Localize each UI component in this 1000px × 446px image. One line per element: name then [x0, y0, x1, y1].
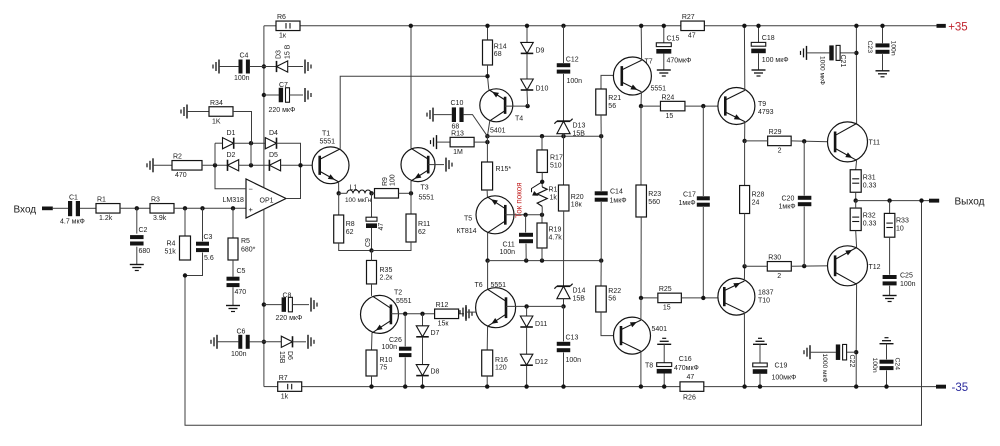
junction rail/D9 — [525, 24, 529, 28]
label C19 100мкФ — [772, 363, 797, 382]
svg-text:5401: 5401 — [490, 128, 506, 135]
junction D6/C6 — [262, 340, 266, 344]
resistor R12 — [435, 302, 459, 328]
junction output/R31 — [854, 198, 858, 202]
ground right of D6 — [308, 335, 314, 349]
junction R25/R23 — [639, 296, 643, 300]
wire R25 right — [681, 297, 723, 299]
svg-text:C20: C20 — [782, 195, 795, 202]
wire D1 to D4 — [234, 142, 266, 144]
capacitor C9 47uF — [365, 217, 385, 247]
svg-text:C22: C22 — [848, 355, 855, 368]
label D5 — [269, 152, 278, 159]
ground left of C10 — [427, 108, 433, 122]
node Вход input terminal — [14, 205, 53, 216]
junction rail/T11 — [854, 24, 858, 28]
wire C20 top seg — [803, 141, 805, 195]
svg-text:100 мкФ: 100 мкФ — [762, 57, 789, 64]
junction T9/R29/R28 — [742, 139, 746, 143]
ground below C15 — [657, 70, 671, 76]
wire D11-D12 — [526, 328, 528, 355]
wire D7 stub — [422, 314, 424, 326]
transistor T9 4793 — [718, 88, 774, 125]
wire T10 collector down — [743, 312, 745, 386]
junction C8 — [262, 302, 266, 306]
junction bus/D13 — [561, 134, 565, 138]
wire R22 to T8 base — [601, 312, 620, 336]
label R35 2.2к — [380, 267, 394, 282]
wire D7-D8 — [422, 337, 424, 364]
ground left of C21 — [801, 46, 807, 60]
capacitor C21 1000мкФ — [829, 45, 840, 60]
junction R4/C3/feedback — [183, 273, 187, 277]
wire +35 rail — [300, 25, 681, 27]
svg-text:Ток покоя: Ток покоя — [515, 182, 524, 218]
wire T6 collector up — [487, 261, 489, 290]
wire R31 to output — [855, 192, 857, 200]
wire T3 collector up — [410, 26, 412, 149]
wire column to D3 — [264, 66, 277, 68]
junction T12/-35 — [854, 384, 858, 388]
wire R8 to joint — [339, 243, 372, 251]
svg-text:T9: T9 — [758, 101, 766, 108]
wire C6 to column — [250, 341, 264, 343]
svg-text:100мкФ: 100мкФ — [772, 375, 797, 382]
svg-text:75: 75 — [380, 365, 388, 372]
label C22 1000мкФ — [821, 354, 855, 383]
junction R16/-35 — [485, 384, 489, 388]
zener D14 15V — [554, 284, 572, 299]
junction T5 base/C11 — [523, 213, 527, 217]
wire D5 to T1 base — [281, 164, 319, 166]
wire R25 left — [641, 297, 658, 299]
svg-text:5.6: 5.6 — [204, 255, 214, 262]
svg-text:1мкФ: 1мкФ — [779, 204, 796, 211]
svg-text:470: 470 — [235, 289, 247, 296]
label R20 18к — [571, 194, 584, 209]
wire T4col-R13-R15 vertical — [486, 136, 488, 162]
svg-text:C7: C7 — [279, 82, 288, 89]
svg-text:T6: T6 — [475, 282, 483, 289]
wire R14 top — [487, 26, 489, 40]
resistor R31 — [850, 170, 861, 193]
svg-text:R12: R12 — [436, 302, 449, 309]
svg-text:C8: C8 — [283, 292, 292, 299]
wire R5 stub top — [232, 208, 234, 238]
transistor T7 5551 — [613, 57, 666, 95]
transistor T12 — [828, 246, 881, 286]
label C7 220мкФ — [269, 82, 296, 114]
svg-text:R21: R21 — [608, 95, 621, 102]
label C8 220мкФ — [276, 292, 303, 322]
transistor T5 KT814 — [457, 196, 515, 235]
wire R19 stub — [541, 215, 543, 223]
svg-text:D6: D6 — [286, 351, 293, 360]
wire R17 to R18 — [541, 173, 543, 187]
wire gnd to R34 — [187, 111, 209, 113]
svg-text:15В: 15В — [573, 296, 586, 303]
wire R4 top stub — [184, 208, 186, 236]
svg-text:R6: R6 — [277, 14, 286, 21]
svg-text:4.7k: 4.7k — [549, 235, 563, 242]
wire -35 rail — [302, 386, 680, 388]
capacitor C20 — [779, 195, 812, 210]
wire T11 collector up — [855, 26, 857, 124]
wire column to C7 — [264, 94, 279, 96]
wire gnd to R2 — [153, 164, 172, 166]
label D1 — [227, 130, 236, 137]
label D8 — [431, 369, 440, 376]
wire C9 stub — [371, 193, 373, 217]
svg-text:D4: D4 — [269, 130, 278, 137]
svg-text:L1: L1 — [350, 185, 358, 192]
wire C26 to rail — [404, 357, 406, 386]
svg-text:680: 680 — [139, 248, 151, 255]
junction D1/D4 mid — [249, 141, 253, 145]
transistor T10 1837 — [718, 278, 774, 315]
resistor R34 — [209, 100, 233, 126]
svg-text:R4: R4 — [167, 241, 176, 248]
junction C4 — [262, 64, 266, 68]
junction R30/C20 — [802, 264, 806, 268]
wire upper diode row — [215, 142, 223, 144]
ground left of C22 — [804, 345, 810, 359]
wire C23 stub — [882, 26, 884, 43]
wire C16 stub — [663, 344, 665, 362]
svg-text:R7: R7 — [279, 375, 288, 382]
svg-text:2: 2 — [778, 148, 782, 155]
label R33 10 — [896, 218, 909, 233]
capacitor C5 — [227, 268, 247, 296]
wire D10 to T4 base — [526, 91, 529, 107]
diode D6 15V — [281, 336, 292, 347]
svg-text:100n: 100n — [566, 357, 582, 364]
junction R9/T3/R11 — [409, 191, 413, 195]
svg-text:C1: C1 — [69, 194, 78, 201]
label D12 — [535, 359, 548, 366]
junction C19/-35 — [758, 384, 762, 388]
svg-text:D14: D14 — [573, 288, 586, 295]
wire R35 stub top — [371, 251, 373, 261]
label D14 15В — [573, 288, 586, 303]
svg-text:R10: R10 — [380, 357, 393, 364]
wire D9-D10 — [526, 54, 528, 79]
svg-text:5551: 5551 — [419, 194, 435, 201]
svg-text:T2: T2 — [394, 290, 402, 297]
svg-text:1K: 1K — [212, 118, 221, 125]
wire column C4-C7 — [263, 67, 265, 188]
capacitor C7 220uF — [279, 88, 290, 103]
resistor R21 — [596, 89, 607, 115]
svg-text:5401: 5401 — [652, 326, 668, 333]
wire R30 left — [745, 265, 768, 267]
resistor R7 — [278, 375, 302, 401]
wire R2 to node A — [202, 164, 228, 166]
wire C7 to ground — [290, 94, 304, 96]
junction T5 base/R18 — [540, 213, 544, 217]
label C18 100мкФ — [762, 35, 789, 64]
inductor L1 100мкГн — [345, 185, 372, 204]
wire R16 to rail — [486, 376, 488, 387]
svg-text:КТ814: КТ814 — [457, 228, 477, 235]
svg-text:R11: R11 — [418, 221, 430, 228]
svg-text:R34: R34 — [210, 100, 223, 107]
svg-text:R28: R28 — [752, 192, 765, 199]
label R9 100 — [382, 174, 397, 186]
label C15 470мкФ — [667, 36, 692, 65]
capacitor C14 — [595, 189, 627, 205]
ground right of C7 — [305, 88, 311, 102]
svg-text:C13: C13 — [566, 334, 579, 341]
svg-text:C6: C6 — [237, 329, 246, 336]
ground right of D3 — [305, 60, 311, 74]
svg-text:C21: C21 — [839, 55, 846, 68]
transistor T11 — [828, 122, 881, 162]
label R26 47 — [683, 374, 696, 402]
svg-text:1k: 1k — [281, 393, 289, 400]
transistor T8 5401 — [614, 317, 668, 369]
label R32 0.33 — [863, 213, 877, 228]
junction R29/C20 — [802, 139, 806, 143]
svg-text:T12: T12 — [869, 264, 881, 271]
wire T11 emitter — [855, 160, 858, 169]
junction node C — [298, 163, 302, 167]
resistor R11 — [406, 214, 416, 242]
ground below C2 — [130, 265, 144, 271]
wire C22 to column — [847, 351, 856, 353]
wire T1 collector up — [340, 76, 487, 149]
capacitor C11 — [500, 233, 534, 256]
wire C5 to ground — [232, 287, 234, 305]
wire R30 to T12 base — [791, 265, 833, 268]
svg-text:C16: C16 — [679, 356, 692, 363]
ground below C25 — [883, 296, 897, 302]
wire opamp output up — [286, 165, 301, 198]
svg-text:5551: 5551 — [396, 298, 412, 305]
svg-text:C23: C23 — [866, 41, 873, 54]
wire R19 bottom — [541, 248, 543, 261]
resistor R28 — [740, 186, 750, 214]
svg-text:1к: 1к — [279, 33, 287, 40]
svg-text:100n: 100n — [500, 249, 516, 256]
label D3 15 В — [276, 44, 292, 59]
wire input to C1 — [53, 207, 68, 209]
wire C18 to ground — [758, 53, 760, 70]
resistor R8 — [334, 215, 344, 243]
resistor R23 — [636, 185, 647, 217]
svg-text:15В: 15В — [573, 131, 586, 138]
svg-text:R27: R27 — [682, 14, 695, 21]
wire D12 to rail — [526, 366, 528, 387]
resistor R24 — [660, 94, 685, 120]
diode D1 — [223, 138, 234, 149]
wire R21 to bus — [600, 115, 602, 136]
svg-text:1837: 1837 — [758, 290, 774, 297]
capacitor C25 — [883, 273, 916, 288]
resistor R14 — [483, 40, 493, 65]
svg-text:C17: C17 — [683, 192, 696, 199]
junction D12/-35 — [524, 384, 528, 388]
capacitor C23 — [866, 41, 896, 56]
ground above C24 — [880, 338, 894, 344]
resistor R1 — [96, 197, 120, 223]
svg-text:C24: C24 — [894, 358, 901, 371]
svg-text:15: 15 — [665, 113, 673, 120]
label D13 15В — [573, 123, 586, 138]
wire R7 left — [264, 386, 278, 388]
svg-text:R26: R26 — [683, 395, 696, 402]
transistor T3 5551 — [401, 148, 435, 202]
wire C2 to ground — [136, 247, 138, 265]
label R22 56 — [608, 288, 621, 303]
capacitor C8 220uF — [282, 297, 293, 312]
diode D2 — [228, 160, 239, 171]
wire R32 to T12 emitter — [855, 231, 858, 248]
wire T2 base right — [391, 313, 435, 315]
label C16 470мкФ — [674, 356, 699, 372]
junction T1 emitter node — [337, 191, 341, 195]
junction rail/C15 — [662, 24, 666, 28]
junction R13 node — [485, 140, 489, 144]
wire R5 to C5 — [232, 260, 234, 277]
wire C14 to bias bus — [600, 202, 602, 261]
wire R17 stub top — [541, 136, 543, 150]
svg-text:D8: D8 — [431, 369, 440, 376]
wire D14 to T6 base node — [563, 299, 565, 307]
resistor R2 — [172, 154, 202, 180]
svg-text:120: 120 — [495, 365, 507, 372]
svg-text:R19: R19 — [549, 227, 562, 234]
junction R14/T4/T1 — [485, 74, 489, 78]
svg-text:Выход: Выход — [955, 197, 985, 208]
junction R1/C2 — [135, 206, 139, 210]
svg-text:100n: 100n — [382, 344, 398, 351]
svg-text:C18: C18 — [762, 35, 775, 42]
svg-text:R9: R9 — [382, 177, 389, 186]
terminal Выход — [929, 197, 985, 208]
wire C13 stub — [563, 306, 565, 341]
wire R23 to R25 node — [640, 217, 642, 298]
label D11 — [535, 321, 547, 328]
ground left of R13 — [431, 135, 437, 149]
wire R35 to T2 — [371, 284, 373, 296]
wire D9 stub — [526, 26, 528, 43]
junction output/R33 — [887, 198, 891, 202]
wire C17 segment — [702, 106, 704, 196]
diode D10 — [521, 79, 534, 90]
svg-text:51k: 51k — [165, 249, 177, 256]
svg-text:R15*: R15* — [496, 166, 512, 173]
svg-text:OP1: OP1 — [260, 197, 274, 204]
resistor R3 — [150, 197, 174, 223]
svg-text:C25: C25 — [900, 273, 913, 280]
wire T1 emitter down — [338, 182, 340, 193]
svg-text:-35: -35 — [952, 382, 969, 394]
svg-text:Вход: Вход — [14, 205, 37, 216]
resistor R33 — [884, 213, 895, 237]
junction rail/C23 — [880, 24, 884, 28]
svg-text:1мкФ: 1мкФ — [610, 198, 627, 205]
ground left of T6 — [460, 305, 466, 319]
wire -35 rail right of R26 — [704, 386, 936, 388]
svg-text:56: 56 — [608, 296, 616, 303]
label C4 100n — [234, 53, 250, 82]
wire T5 collector down — [487, 233, 489, 261]
wire D2 to D5 — [239, 164, 270, 166]
transistor T2 5551 — [361, 290, 412, 334]
label R23 560 — [648, 191, 661, 206]
wire gnd to C21 — [807, 52, 830, 54]
svg-text:R33: R33 — [896, 218, 909, 225]
wire T4 base right — [505, 105, 527, 107]
svg-text:D12: D12 — [535, 359, 548, 366]
wire D11 stub — [526, 306, 528, 316]
svg-text:5551: 5551 — [491, 282, 507, 289]
resistor R10 — [366, 350, 377, 376]
junction R10/-35 — [369, 384, 373, 388]
svg-text:470: 470 — [175, 172, 187, 179]
wire C4 to column — [250, 66, 264, 68]
label D4 — [269, 130, 278, 137]
wire gnd to C4 — [219, 66, 239, 68]
resistor R16 — [482, 350, 493, 376]
junction R17/R18 wiper — [540, 180, 544, 184]
label Ток покоя (red) — [515, 182, 524, 218]
svg-text:68: 68 — [494, 51, 502, 58]
label D7 — [431, 330, 440, 337]
ground left of R34 — [181, 105, 187, 119]
capacitor C18 100мкФ — [751, 42, 766, 53]
svg-text:1k: 1k — [550, 195, 558, 202]
svg-text:R8: R8 — [346, 221, 355, 228]
junction rail/T7 — [639, 24, 643, 28]
wire C11 stub — [525, 215, 527, 233]
wire R34 to node B — [233, 112, 252, 144]
wire R15 to T5 — [486, 190, 488, 197]
wire R33 stub — [889, 201, 891, 214]
svg-text:R1: R1 — [97, 197, 106, 204]
junction bus/R19b — [540, 258, 544, 262]
ground left of R2 — [147, 158, 153, 172]
svg-text:C4: C4 — [240, 53, 249, 60]
svg-text:0.33: 0.33 — [863, 183, 877, 190]
wire C3 stub top — [202, 208, 204, 241]
zener D13 15V — [554, 119, 572, 134]
svg-text:C3: C3 — [204, 234, 213, 241]
wire T6 base right — [506, 305, 564, 307]
wire C13 to rail — [563, 353, 565, 387]
capacitor C10 68 — [451, 100, 464, 130]
label D2 — [227, 152, 236, 159]
wire T1 emitter to R8 — [338, 193, 340, 215]
ground right of R12 — [466, 307, 472, 321]
wire T7 base column — [601, 75, 621, 89]
wire T9 emitter down — [744, 122, 746, 141]
svg-text:R2: R2 — [173, 154, 182, 161]
transistor T1 5551 — [312, 130, 349, 183]
wire T5 base right — [505, 214, 542, 216]
terminal -35 — [936, 382, 968, 394]
wire C26 stub top — [404, 314, 406, 347]
wire R11 to joint — [372, 242, 412, 251]
wire R1 to R3 — [120, 207, 150, 209]
svg-text:560: 560 — [648, 199, 660, 206]
junction bus/R21col — [599, 134, 603, 138]
svg-text:1.2k: 1.2k — [99, 215, 113, 222]
resistor R29 — [768, 129, 792, 155]
svg-text:T1: T1 — [322, 130, 330, 137]
svg-text:LM318: LM318 — [223, 197, 245, 204]
